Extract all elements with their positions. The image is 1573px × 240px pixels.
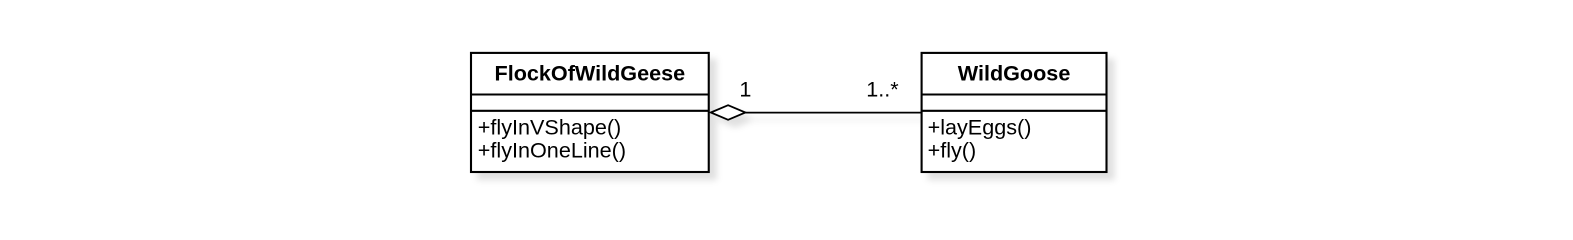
svg-text:1: 1 [739,76,751,101]
svg-text:+fly(): +fly() [928,138,977,163]
svg-text:+flyInOneLine(): +flyInOneLine() [478,138,626,163]
svg-text:+layEggs(): +layEggs() [928,114,1032,139]
svg-text:WildGoose: WildGoose [958,61,1071,86]
svg-text:FlockOfWildGeese: FlockOfWildGeese [495,61,686,86]
svg-text:+flyInVShape(): +flyInVShape() [478,114,621,139]
svg-text:1..*: 1..* [866,76,899,101]
